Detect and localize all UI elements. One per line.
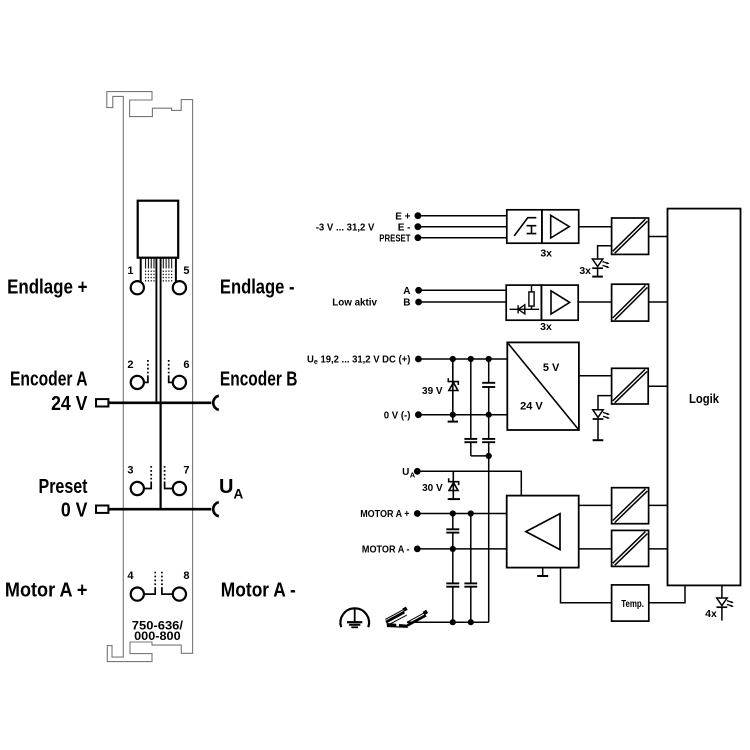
capacitor C6 branch <box>464 514 477 623</box>
capacitor C5 branch <box>446 549 459 622</box>
svg-text:Encoder B: Encoder B <box>220 369 298 391</box>
24V bus socket arc <box>213 396 219 410</box>
thin wire bundle below plug <box>146 258 172 269</box>
svg-text:-3 V ... 31,2 V: -3 V ... 31,2 V <box>316 223 375 234</box>
wire opto1 to logic <box>649 236 668 238</box>
svg-text:Preset: Preset <box>39 476 88 498</box>
wire dcdc to opto3 <box>579 375 612 377</box>
svg-text:MOTOR A -: MOTOR A - <box>362 545 410 556</box>
wire motor driver to opto4 <box>579 504 612 506</box>
wire B <box>419 301 507 303</box>
0V supply terminal connector <box>96 506 108 513</box>
wire E- <box>418 226 507 228</box>
LED D2 <box>593 396 612 441</box>
svg-text:Encoder A: Encoder A <box>10 369 88 391</box>
svg-text:4: 4 <box>127 570 134 582</box>
encoder input box U3 (resistor + diode) <box>506 285 541 320</box>
wire PRESET <box>418 237 507 239</box>
svg-text:4x: 4x <box>705 608 717 620</box>
wire opto3 to logic <box>648 385 667 387</box>
svg-text:3: 3 <box>127 465 133 477</box>
svg-text:3x: 3x <box>540 321 552 333</box>
24V bus wire <box>108 401 211 404</box>
svg-text:3x: 3x <box>579 265 591 277</box>
amplifier U4 <box>541 285 578 320</box>
svg-text:A: A <box>403 286 410 297</box>
svg-text:5: 5 <box>183 265 189 277</box>
wire amp to opto1 <box>579 226 612 228</box>
0V bus wire <box>108 508 211 511</box>
temperature sensor box <box>612 585 649 621</box>
svg-text:MOTOR A +: MOTOR A + <box>360 509 409 520</box>
motor driver box <box>507 496 579 568</box>
wire opto2 to logic <box>649 301 668 303</box>
terminal circle 5 <box>173 281 186 294</box>
wire opto4 to logic <box>649 504 668 506</box>
svg-text:PRESET: PRESET <box>379 233 410 244</box>
capacitor C3 branch <box>482 415 495 456</box>
center cable double line <box>155 258 157 402</box>
chassis wire <box>407 621 489 623</box>
contact hook terminal 2 <box>144 375 148 382</box>
center cable single line to 0V bus <box>160 402 162 509</box>
amplifier U2 <box>542 210 579 243</box>
svg-text:Temp.: Temp. <box>621 599 644 610</box>
terminal circle 2 <box>131 376 144 389</box>
svg-text:A: A <box>234 487 244 502</box>
LED D3 4x below logic <box>717 585 734 620</box>
svg-text:Ue 19,2 ... 31,2 V DC (+): Ue 19,2 ... 31,2 V DC (+) <box>307 355 410 367</box>
LED D1 3x <box>592 246 611 277</box>
earth symbol <box>340 608 369 628</box>
svg-text:U: U <box>219 476 233 498</box>
opto-coupler 4 <box>612 488 649 524</box>
wire Ue+ <box>418 358 507 360</box>
wire UA to motor driver <box>417 471 521 495</box>
svg-text:Endlage -: Endlage - <box>220 277 295 299</box>
zener diode 30V <box>448 471 460 499</box>
logic box <box>668 209 741 586</box>
wire to opto2 <box>578 301 611 303</box>
opto-coupler 1 <box>612 218 649 254</box>
svg-text:Low aktiv: Low aktiv <box>332 298 377 309</box>
svg-text:1: 1 <box>127 265 133 277</box>
wire motor driver to opto5 <box>579 548 612 550</box>
ground stub below 0V <box>452 415 454 421</box>
terminal circle 8 <box>173 588 186 601</box>
svg-text:E -: E - <box>398 222 411 233</box>
wire E+ <box>418 215 507 217</box>
svg-text:5 V: 5 V <box>543 362 560 374</box>
contact hook terminal 3 <box>144 482 151 489</box>
opto-coupler 2 <box>612 284 649 321</box>
svg-text:39 V: 39 V <box>422 386 443 397</box>
svg-text:Motor A -: Motor A - <box>221 580 296 602</box>
DC/DC converter <box>507 342 579 430</box>
opto-coupler 5 <box>612 530 649 566</box>
svg-text:30 V: 30 V <box>422 483 443 494</box>
capacitor C2 branch <box>464 359 488 456</box>
terminal circle 1 <box>131 281 144 294</box>
capacitor C1 <box>482 359 495 415</box>
wire from plug to terminal 1 <box>140 258 142 282</box>
svg-text:Logik: Logik <box>689 391 720 406</box>
svg-text:B: B <box>403 298 410 309</box>
svg-text:000-800: 000-800 <box>134 629 181 643</box>
svg-text:Motor A +: Motor A + <box>5 580 88 602</box>
svg-text:Endlage +: Endlage + <box>7 277 87 299</box>
dotted wire bundle continuation <box>146 271 172 284</box>
svg-text:0 V (-): 0 V (-) <box>384 410 411 421</box>
terminal circle 6 <box>173 376 186 389</box>
wire opto5 to logic <box>649 548 668 550</box>
svg-text:3x: 3x <box>540 247 552 259</box>
wire down to chassis <box>488 456 490 622</box>
DIN rail icon <box>385 607 428 628</box>
svg-text:24 V: 24 V <box>520 400 543 412</box>
contact hook terminal 4 <box>144 587 155 594</box>
junction dots Ue+ <box>450 356 456 362</box>
svg-text:2: 2 <box>127 359 133 371</box>
contact hook terminal 6 <box>169 375 173 382</box>
svg-text:24 V: 24 V <box>51 393 88 415</box>
contact hook terminal 7 <box>165 482 173 489</box>
connector plug <box>138 201 179 258</box>
input stage box U1 (threshold) <box>507 210 542 243</box>
svg-text:7: 7 <box>183 465 189 477</box>
wire MOTOR A- <box>417 548 506 550</box>
wire A <box>419 289 507 291</box>
contact hook terminal 8 <box>162 587 173 594</box>
wire 0V <box>418 414 507 416</box>
svg-text:E +: E + <box>395 211 410 222</box>
terminal circle 7 <box>173 482 186 495</box>
wire from plug to terminal 5 <box>175 258 177 282</box>
wire temp to logic <box>649 585 685 602</box>
zener diode 39V <box>448 359 458 415</box>
terminal circle 3 <box>131 482 144 495</box>
24V supply terminal connector <box>96 399 108 406</box>
junction dot <box>486 453 492 459</box>
svg-text:0 V: 0 V <box>61 499 88 521</box>
opto-coupler 3 <box>612 368 649 404</box>
ground below motor driver <box>542 568 544 576</box>
terminal circle 4 <box>131 588 144 601</box>
svg-text:6: 6 <box>183 359 189 371</box>
capacitor C4 between motor wires <box>446 514 459 549</box>
svg-text:8: 8 <box>183 570 189 582</box>
module body outline 750-636 <box>107 92 193 662</box>
svg-text:U: U <box>402 467 409 478</box>
0V bus socket arc <box>213 502 219 516</box>
wire MOTOR A+ <box>417 513 506 515</box>
wire motor driver to temp <box>561 568 612 603</box>
